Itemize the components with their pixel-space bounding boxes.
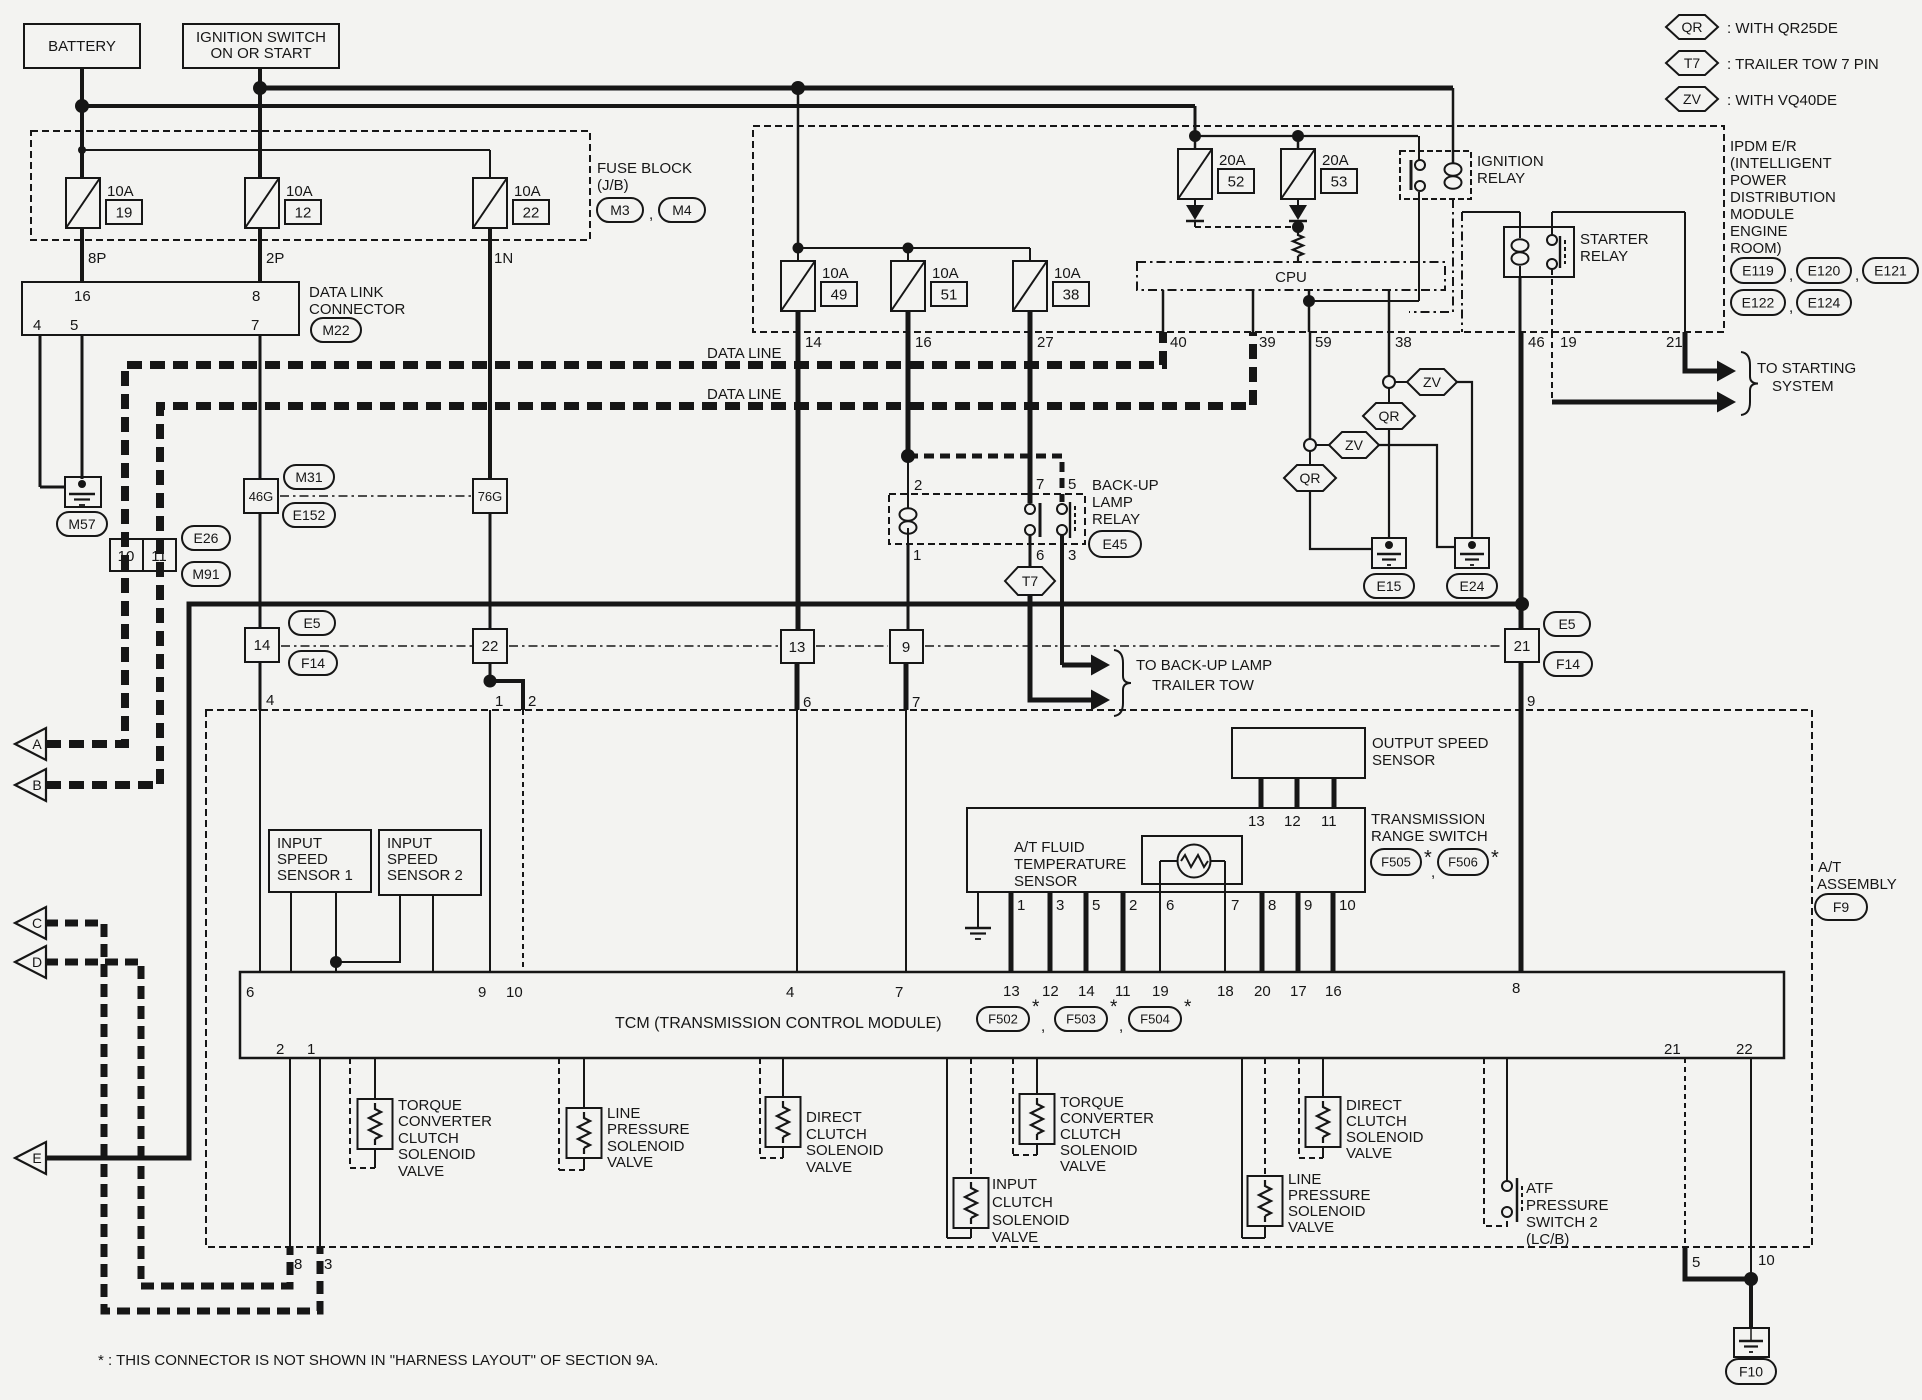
wire AT pin9 to TCM pin8	[1519, 710, 1524, 972]
wire fuse49 output	[796, 311, 801, 630]
torque converter clutch solenoid valve 1	[350, 1058, 393, 1168]
svg-text:SOLENOID: SOLENOID	[806, 1142, 884, 1159]
svg-text:9: 9	[1304, 897, 1312, 914]
A/T assembly outline	[206, 710, 1812, 1247]
svg-text:E45: E45	[1103, 536, 1128, 552]
svg-text:14: 14	[1078, 983, 1095, 1000]
svg-text:E24: E24	[1460, 578, 1485, 594]
pin 6 AT	[803, 694, 811, 711]
svg-text:14: 14	[805, 334, 822, 351]
svg-text:8P: 8P	[88, 250, 106, 267]
svg-text:ATF: ATF	[1526, 1180, 1553, 1197]
svg-text:46: 46	[1528, 334, 1545, 351]
wire TRS pin8	[1260, 892, 1265, 972]
wire TRS pin9	[1296, 892, 1301, 972]
wire data line 1 (CAN)	[46, 332, 1163, 744]
pin 1 TRS	[1017, 897, 1025, 914]
svg-text:11: 11	[1321, 813, 1337, 830]
svg-text:OUTPUT SPEED: OUTPUT SPEED	[1372, 735, 1489, 752]
svg-text:76G: 76G	[478, 489, 503, 504]
pin 2 AT	[528, 693, 536, 710]
node D	[15, 946, 46, 978]
svg-text:TEMPERATURE: TEMPERATURE	[1014, 856, 1126, 873]
svg-text:TRANSMISSION: TRANSMISSION	[1371, 811, 1485, 828]
A/T assembly label	[1817, 859, 1897, 893]
svg-text:27: 27	[1037, 334, 1054, 351]
svg-text:A/T: A/T	[1818, 859, 1841, 876]
wire split to AT pin 2	[490, 681, 523, 710]
backup relay contact A	[1025, 503, 1040, 537]
wire IPDM 10A feed bus	[798, 247, 1030, 249]
fuse 12 value label	[285, 183, 321, 224]
starter relay coil	[1512, 212, 1529, 277]
wire thermistor left	[1160, 861, 1178, 892]
wire 46G-76G link	[280, 495, 471, 497]
svg-text:ZV: ZV	[1683, 91, 1702, 107]
transmission range switch label	[1371, 811, 1488, 845]
svg-text:SPEED: SPEED	[387, 851, 438, 868]
svg-text:10A: 10A	[822, 265, 849, 282]
svg-text:SOLENOID: SOLENOID	[398, 1146, 476, 1163]
IPDM E/R outline	[753, 126, 1724, 332]
svg-text:DIRECT: DIRECT	[1346, 1097, 1402, 1114]
svg-text:ZV: ZV	[1345, 437, 1364, 453]
pin 9 TCM	[478, 984, 486, 1001]
svg-text:M91: M91	[192, 566, 219, 582]
pin 5	[70, 317, 78, 334]
ground E15 body	[1372, 538, 1406, 568]
svg-text:VALVE: VALVE	[992, 1229, 1038, 1246]
svg-text:POWER: POWER	[1730, 172, 1787, 189]
pin 20 TCM	[1254, 983, 1271, 1000]
svg-text:SOLENOID: SOLENOID	[607, 1138, 685, 1155]
wire DLC pin 5 to ground	[81, 335, 84, 479]
pin 19 TCM	[1152, 983, 1169, 1000]
pin 19	[1560, 334, 1577, 351]
svg-text:*: *	[1110, 997, 1118, 1018]
data link connector label	[309, 284, 406, 318]
pin 4	[33, 317, 41, 334]
svg-text:7: 7	[912, 694, 920, 711]
svg-text:STARTER: STARTER	[1580, 231, 1649, 248]
connector E24	[1447, 574, 1497, 598]
svg-text:VALVE: VALVE	[1288, 1219, 1334, 1236]
svg-text:8: 8	[294, 1256, 302, 1273]
wire OSS 11	[1332, 778, 1337, 808]
wire TCM pin21 to AT pin5	[1684, 1058, 1686, 1246]
svg-text:B: B	[32, 777, 41, 793]
pin 27 IPDM	[1037, 334, 1054, 351]
wire TRS pin5	[1084, 892, 1089, 972]
wire AT pin4 to TCM	[259, 710, 261, 972]
svg-text:(INTELLIGENT: (INTELLIGENT	[1730, 155, 1832, 172]
svg-text:F14: F14	[1556, 656, 1580, 672]
svg-text:PRESSURE: PRESSURE	[1288, 1187, 1371, 1204]
svg-text:SOLENOID: SOLENOID	[1288, 1203, 1366, 1220]
svg-text:2: 2	[276, 1041, 284, 1058]
wire battery bus drop	[1194, 106, 1197, 136]
fuse 19 value label	[106, 183, 142, 224]
diode D2	[1289, 199, 1307, 227]
svg-text:10: 10	[1339, 897, 1356, 914]
node F10 junction	[1744, 1272, 1758, 1286]
svg-text:22: 22	[523, 204, 540, 221]
wire fuse53 stub	[1297, 136, 1300, 149]
pin 9 AT	[1527, 693, 1535, 710]
svg-text:*: *	[1032, 997, 1040, 1018]
svg-text:TORQUE: TORQUE	[1060, 1094, 1124, 1111]
svg-text:12: 12	[1284, 813, 1301, 830]
svg-text:4: 4	[266, 692, 274, 709]
svg-text:E122: E122	[1742, 295, 1775, 311]
wire E5-F14 link row	[281, 645, 1503, 647]
output speed sensor box	[1232, 728, 1365, 778]
pin 7 TRS	[1231, 897, 1239, 914]
ignition relay coil return	[1409, 199, 1453, 312]
svg-text:BACK-UP: BACK-UP	[1092, 477, 1159, 494]
svg-text:A: A	[32, 736, 42, 752]
output speed sensor label	[1372, 735, 1489, 769]
svg-text:E5: E5	[303, 615, 320, 631]
svg-text:RANGE SWITCH: RANGE SWITCH	[1371, 828, 1488, 845]
variant tag ZV (VQ40DE) pin59	[1316, 432, 1379, 458]
svg-text:*: *	[1184, 997, 1192, 1018]
svg-text:F14: F14	[301, 655, 325, 671]
connector E5 right	[1544, 612, 1590, 636]
variant tag T7 trailer tow	[1005, 567, 1055, 595]
pin 6 TRS	[1166, 897, 1174, 914]
svg-text:10A: 10A	[1054, 265, 1081, 282]
wire OSS 12	[1295, 778, 1300, 808]
fuse 22 10A	[473, 178, 507, 228]
starting system brace	[1741, 352, 1758, 415]
pin 39	[1259, 334, 1276, 351]
svg-text:E124: E124	[1808, 295, 1841, 311]
pin 59	[1315, 334, 1332, 351]
svg-text:53: 53	[1331, 173, 1348, 190]
wire D to TCM pin 2	[45, 962, 290, 1286]
wire fuse38 output	[1028, 311, 1033, 503]
resistor CPU pull	[1293, 229, 1303, 262]
svg-text:16: 16	[74, 288, 91, 305]
connector F14 right	[1544, 652, 1592, 676]
svg-text:7: 7	[895, 984, 903, 1001]
svg-text:QR: QR	[1300, 470, 1321, 486]
connector 46G box	[244, 479, 278, 513]
svg-text:VALVE: VALVE	[1060, 1158, 1106, 1175]
svg-text:11: 11	[1115, 983, 1131, 1000]
connector E121	[1855, 258, 1918, 284]
legend T7 text	[1727, 56, 1879, 73]
node backup relay split	[901, 449, 915, 463]
connector E45	[1089, 531, 1141, 557]
svg-text:E: E	[32, 1150, 41, 1166]
pin 4 AT	[266, 692, 274, 709]
wire starter contact top	[1552, 212, 1685, 235]
connector E5/F14 pin 21 box	[1505, 629, 1539, 662]
svg-text:CPU: CPU	[1275, 269, 1307, 286]
svg-text:DATA LINE: DATA LINE	[707, 345, 781, 362]
connector M91	[182, 562, 230, 586]
pin 1N	[494, 250, 513, 267]
svg-text:SENSOR 1: SENSOR 1	[277, 867, 353, 884]
svg-text:9: 9	[478, 984, 486, 1001]
wire CPU pin39 stub	[1252, 290, 1255, 332]
wire ign relay contact feed	[1418, 136, 1420, 161]
connector F506	[1438, 847, 1499, 875]
svg-text:E26: E26	[194, 530, 219, 546]
svg-text:E121: E121	[1874, 263, 1907, 279]
wire relay pin6 down	[1029, 535, 1032, 566]
wire ZV59 to E24	[1379, 445, 1455, 547]
svg-text:ON OR START: ON OR START	[210, 45, 311, 62]
svg-text:BATTERY: BATTERY	[48, 38, 116, 55]
svg-text:20: 20	[1254, 983, 1271, 1000]
svg-text:39: 39	[1259, 334, 1276, 351]
node diode junction	[1292, 221, 1304, 233]
pin 3 relay	[1068, 547, 1076, 564]
wire ignition drop	[258, 68, 262, 178]
svg-text:ROOM): ROOM)	[1730, 240, 1782, 257]
node E	[15, 1142, 46, 1174]
svg-text:D: D	[32, 954, 42, 970]
svg-text:INPUT: INPUT	[992, 1176, 1037, 1193]
svg-text:1: 1	[495, 693, 503, 710]
pin 8P	[88, 250, 106, 267]
svg-text:6: 6	[1036, 547, 1044, 564]
svg-text:M57: M57	[68, 516, 95, 532]
svg-text:PRESSURE: PRESSURE	[1526, 1197, 1609, 1214]
wire relay contact link	[1309, 300, 1419, 302]
pin 38	[1395, 334, 1412, 351]
svg-text:ZV: ZV	[1423, 374, 1442, 390]
svg-text:5: 5	[1068, 476, 1076, 493]
data link connector M22 box	[22, 282, 299, 335]
svg-text:QR: QR	[1379, 408, 1400, 424]
svg-text:21: 21	[1514, 638, 1531, 655]
svg-text:F9: F9	[1833, 899, 1850, 915]
connector E122	[1731, 290, 1785, 315]
svg-text:T7: T7	[1684, 55, 1701, 71]
svg-text:VALVE: VALVE	[806, 1159, 852, 1176]
svg-text:INPUT: INPUT	[277, 835, 322, 852]
node ignition bus tap fuse 49	[791, 81, 805, 95]
svg-text:10: 10	[1758, 1252, 1775, 1269]
diode D1	[1186, 199, 1204, 227]
pin 9 TRS	[1304, 897, 1312, 914]
svg-text:51: 51	[941, 286, 958, 303]
line pressure solenoid valve 1	[559, 1058, 602, 1170]
svg-text:1: 1	[913, 547, 921, 564]
pin 12 TRS	[1284, 813, 1301, 830]
svg-text:SPEED: SPEED	[277, 851, 328, 868]
wire DLC pin7 mid segment	[259, 513, 262, 628]
wire starter coil feed drop	[1461, 212, 1463, 332]
direct clutch solenoid valve 1 label	[806, 1109, 884, 1176]
line pressure solenoid valve 1 label	[607, 1105, 690, 1171]
pin 8 TRS	[1268, 897, 1276, 914]
to starting system label	[1757, 360, 1856, 395]
pin 7	[251, 317, 259, 334]
svg-text:21: 21	[1666, 334, 1683, 351]
svg-text:* : THIS CONNECTOR IS NOT SHOW: * : THIS CONNECTOR IS NOT SHOWN IN "HARN…	[98, 1352, 658, 1369]
node pin1/2 split	[484, 675, 497, 688]
svg-text:18: 18	[1217, 983, 1234, 1000]
svg-text:,: ,	[1119, 1018, 1123, 1035]
node C	[15, 907, 46, 939]
svg-text:8: 8	[1512, 980, 1520, 997]
wire backup coil feed	[907, 456, 909, 509]
to back-up lamp label	[1136, 657, 1272, 694]
wire E to connector 21	[45, 604, 1516, 1158]
connector E5 left	[289, 611, 335, 635]
wire fuse22 mid segment	[489, 513, 492, 629]
wire OSS 13	[1259, 778, 1264, 808]
legend ZV tag	[1666, 87, 1718, 111]
svg-text:38: 38	[1063, 286, 1080, 303]
footnote	[98, 1352, 658, 1369]
connector M22	[311, 318, 361, 342]
wire fuse block internal bus	[82, 150, 490, 178]
wire CPU pin40 stub	[1162, 290, 1165, 332]
pin 6 relay	[1036, 547, 1044, 564]
direct clutch solenoid valve 1	[760, 1058, 801, 1158]
input clutch solenoid valve label	[992, 1176, 1070, 1246]
svg-text:: WITH VQ40DE: : WITH VQ40DE	[1727, 92, 1837, 109]
svg-text:PRESSURE: PRESSURE	[607, 1121, 690, 1138]
svg-text:DISTRIBUTION: DISTRIBUTION	[1730, 189, 1836, 206]
svg-text:38: 38	[1395, 334, 1412, 351]
svg-text:,: ,	[1789, 299, 1793, 316]
svg-text:17: 17	[1290, 983, 1307, 1000]
wire QR38 to E15	[1388, 429, 1390, 538]
svg-text:E152: E152	[293, 507, 326, 523]
variant tag QR (QR25DE) pin59	[1284, 451, 1336, 491]
fuse 49 10A	[781, 261, 815, 311]
svg-text:ENGINE: ENGINE	[1730, 223, 1788, 240]
connector E5/F14 pin 9 box	[890, 630, 923, 663]
svg-text:MODULE: MODULE	[1730, 206, 1794, 223]
svg-text:2: 2	[528, 693, 536, 710]
svg-text:12: 12	[1042, 983, 1059, 1000]
svg-text:,: ,	[1431, 864, 1435, 881]
svg-text:3: 3	[324, 1256, 332, 1273]
wire TRS pin2	[1121, 892, 1126, 972]
connector M4	[649, 198, 705, 223]
svg-text:22: 22	[482, 638, 499, 655]
svg-text:DATA LINE: DATA LINE	[707, 386, 781, 403]
line pressure solenoid valve 2 label	[1288, 1171, 1371, 1236]
input clutch solenoid valve	[947, 1058, 989, 1238]
pin 6 TCM	[246, 984, 254, 1001]
connector M3	[597, 198, 643, 222]
torque converter clutch solenoid valve 2 label	[1060, 1094, 1154, 1175]
svg-text:CLUTCH: CLUTCH	[992, 1194, 1053, 1211]
wire 14 to AT pin 4	[259, 662, 262, 710]
connector F505	[1371, 847, 1435, 881]
svg-text:CLUTCH: CLUTCH	[1346, 1113, 1407, 1130]
node fuse49 tap	[793, 243, 804, 254]
connector F502	[977, 997, 1045, 1035]
svg-text:9: 9	[902, 639, 910, 656]
torque converter clutch solenoid valve 2	[1013, 1058, 1055, 1155]
svg-text:LINE: LINE	[607, 1105, 640, 1122]
svg-text:14: 14	[254, 637, 271, 654]
pin 40	[1170, 334, 1187, 351]
svg-text:TO STARTING: TO STARTING	[1757, 360, 1856, 377]
svg-text:SOLENOID: SOLENOID	[1060, 1142, 1138, 1159]
svg-text:FUSE BLOCK: FUSE BLOCK	[597, 160, 692, 177]
svg-text:49: 49	[831, 286, 848, 303]
svg-text:46G: 46G	[249, 489, 274, 504]
ground TRS internal	[965, 892, 991, 939]
connector E120	[1789, 258, 1851, 284]
data line 2 label	[707, 386, 781, 403]
pin 2 TRS	[1129, 897, 1137, 914]
pin 11 TRS	[1321, 813, 1337, 830]
wire pin59 down	[1309, 332, 1312, 439]
pin 4 TCM	[786, 984, 794, 1001]
connector E26	[182, 526, 230, 550]
pin 22 TCM	[1736, 1041, 1753, 1058]
svg-text:1N: 1N	[494, 250, 513, 267]
svg-text:E15: E15	[1377, 578, 1402, 594]
pin 18 TCM	[1217, 983, 1234, 1000]
fuse 49 value label	[821, 265, 857, 306]
wire ign relay contact drop	[1418, 192, 1420, 301]
ATF pressure switch 2 contacts	[1502, 1058, 1512, 1217]
svg-text:LAMP: LAMP	[1092, 494, 1133, 511]
legend T7 tag	[1666, 51, 1718, 75]
pin 3 TRS	[1056, 897, 1064, 914]
wire TRS pin10	[1331, 892, 1336, 972]
node E-wire junction	[1515, 597, 1529, 611]
svg-text:VALVE: VALVE	[607, 1154, 653, 1171]
svg-text:5: 5	[70, 317, 78, 334]
wire DLC pin 7 down	[259, 335, 262, 479]
svg-text:10A: 10A	[107, 183, 134, 200]
connector F9	[1815, 894, 1867, 920]
svg-text:10A: 10A	[286, 183, 313, 200]
svg-text:IGNITION SWITCH: IGNITION SWITCH	[196, 29, 326, 46]
ignition relay coil	[1445, 163, 1462, 188]
A/T fluid temperature sensor box	[1142, 836, 1242, 884]
pin 10 TCM	[506, 984, 523, 1001]
fuse 19 10A	[66, 178, 100, 228]
wire pin21 to starting system	[1685, 332, 1736, 382]
pin 3 AT bottom	[324, 1256, 332, 1273]
svg-text:M3: M3	[610, 202, 630, 218]
svg-text:10A: 10A	[514, 183, 541, 200]
connector M57	[57, 512, 107, 536]
svg-text:1: 1	[1017, 897, 1025, 914]
wire fuse 12 output	[258, 228, 262, 282]
svg-text:F504: F504	[1140, 1012, 1170, 1027]
svg-text:SENSOR: SENSOR	[1014, 873, 1078, 890]
wire IPDM 20A feed bus	[1194, 135, 1418, 137]
svg-text:2: 2	[914, 477, 922, 494]
back-up lamp relay box	[889, 494, 1085, 544]
pin 2 TCM	[276, 1041, 284, 1058]
pin 46	[1528, 334, 1545, 351]
ignition relay U1 box	[1400, 151, 1471, 199]
svg-text:F503: F503	[1066, 1012, 1096, 1027]
data line 1 label	[707, 345, 781, 362]
fuse 38 value label	[1053, 265, 1089, 306]
wire backup contact feed	[908, 456, 1062, 502]
svg-text:: WITH QR25DE: : WITH QR25DE	[1727, 20, 1838, 37]
svg-text:A/T FLUID: A/T FLUID	[1014, 839, 1085, 856]
